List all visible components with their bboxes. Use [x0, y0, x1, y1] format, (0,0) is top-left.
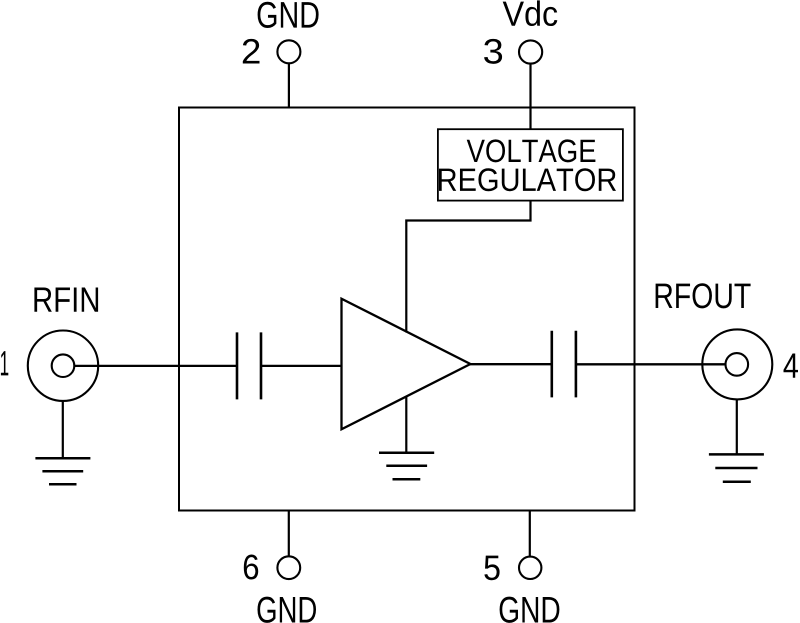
pin number 3: [484, 39, 502, 64]
pin 6 terminal circle: [277, 556, 300, 579]
pin 4 ground stem: [736, 399, 738, 454]
pin number 4: [784, 354, 799, 378]
wire pin2 to package: [288, 63, 290, 108]
package outline: [179, 108, 635, 511]
wire C1 to amplifier: [261, 365, 342, 367]
wire package to pin5: [529, 510, 531, 557]
capacitor C1 plates: [237, 332, 261, 399]
ground symbol amplifier: [379, 453, 434, 480]
pin 4 coax connector center: [726, 353, 749, 376]
wire RFIN to C1: [74, 365, 237, 367]
pin number 5: [484, 556, 499, 581]
label GND pin5: [500, 597, 560, 623]
pin 1 ground stem: [62, 401, 64, 458]
wire amplifier to C2: [470, 363, 552, 365]
amplifier ground stem: [405, 396, 407, 452]
pin 1 coax connector center: [52, 354, 75, 377]
capacitor C2 plates: [552, 331, 576, 398]
pin number 1: [1, 351, 8, 375]
pin number 6: [244, 555, 258, 580]
voltage regulator label REGULATOR: [439, 168, 616, 191]
ground symbol pin4: [709, 454, 764, 481]
label RFOUT: [656, 283, 751, 308]
pin 5 terminal circle: [519, 557, 541, 579]
pin 1 coax connector outer ring: [28, 331, 98, 401]
wire pin3 to voltage regulator: [529, 64, 531, 130]
wire regulator to amplifier bias: [406, 201, 530, 333]
label GND pin6: [258, 597, 317, 623]
wire C2 to RFOUT: [576, 363, 726, 365]
wire package to pin6: [288, 510, 290, 557]
ground symbol pin1: [35, 458, 90, 484]
voltage regulator label VOLTAGE: [467, 139, 596, 162]
pin 4 coax connector outer ring: [702, 329, 772, 399]
pin 2 terminal circle: [277, 40, 300, 63]
label RFIN: [34, 287, 98, 311]
pin number 2: [243, 39, 260, 64]
amplifier A1 triangle: [342, 299, 471, 430]
label Vdc pin3: [503, 0, 558, 26]
voltage regulator U1 box: [438, 129, 623, 200]
pin 3 terminal circle: [519, 40, 542, 63]
label GND pin2: [258, 2, 319, 28]
